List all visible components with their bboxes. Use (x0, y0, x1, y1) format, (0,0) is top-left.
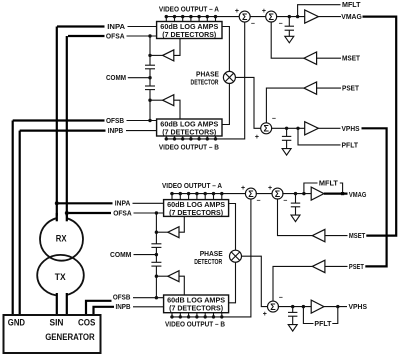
summer S6 (bottom phase) (268, 301, 279, 312)
op-amp A1 VMAG buffer (top) (305, 10, 319, 23)
junction cap node (bottom phase) (291, 305, 294, 308)
wire rail mid (bottom) (155, 247, 157, 262)
wire mixer2 out to sum6 (242, 256, 269, 306)
wire OFSA sense line from RX (66, 36, 68, 221)
op-amp A3 PSET (top) (304, 82, 317, 94)
offset buffer amp A1 (150, 39, 180, 61)
ground symbol G4 (288, 325, 297, 332)
svg-text:OFSB: OFSB (106, 116, 124, 125)
wire offset rail A1 vertical (149, 36, 151, 65)
op-amp A7 PSET (bottom) (312, 260, 325, 272)
wire INPB1 drop to generator GND (19, 131, 21, 315)
log amp box B1 (157, 119, 222, 136)
junction MFLT cap node (288, 15, 291, 18)
wire INPA sense line from RX (56, 27, 58, 220)
summer S1 (top) (239, 11, 250, 22)
svg-text:MFLT: MFLT (342, 0, 361, 9)
svg-text:MSET: MSET (342, 54, 361, 63)
op-amp A4 VPHS buffer (top) (305, 122, 319, 135)
svg-text:–: – (272, 116, 276, 123)
wire OFSB2 to box (133, 297, 164, 299)
wire amp to VPHS (318, 127, 340, 129)
mixer U2 phase detector (bottom) (230, 250, 242, 262)
svg-text:VIDEO OUTPUT – A: VIDEO OUTPUT – A (159, 4, 219, 13)
wire S5 to VMAG2 amp (282, 193, 311, 195)
svg-text:PSET: PSET (342, 84, 360, 93)
svg-text:Σ: Σ (242, 12, 248, 22)
capacitor C4 phase filter (282, 128, 291, 148)
wire VMAG top to MSET bottom (feedback) (363, 17, 397, 236)
junction OFSA2 rail (155, 211, 158, 214)
wire bus B1 (165, 21, 245, 138)
wire MFLT1 (298, 5, 341, 17)
label PHASE DETECTOR (top) (191, 69, 220, 86)
junction PFLT tap (296, 127, 299, 130)
wire S6 to VPHS2 amp (278, 306, 311, 308)
wire COMM2 (134, 254, 157, 256)
capacitor C1 (145, 65, 155, 69)
junction dots bus A1 (165, 15, 218, 18)
wire OFSA2 left (67, 212, 111, 214)
svg-text:VIDEO OUTPUT – B: VIDEO OUTPUT – B (159, 143, 219, 152)
coil RX (40, 213, 83, 261)
wire box A1 to mixer1 (222, 27, 229, 72)
junction MFLT2 tap (302, 192, 305, 195)
wire INPA2 to box (133, 202, 164, 204)
wire PSET2 amp to S6 minus (273, 266, 312, 301)
mixer U1 phase detector (top) (223, 71, 235, 83)
wire VPHS top to PSET bottom (feedback) (362, 128, 387, 266)
svg-text:VMAG: VMAG (341, 12, 362, 21)
svg-text:(7 DETECTORS): (7 DETECTORS) (162, 127, 216, 136)
wire TX to SIN a (56, 293, 58, 315)
svg-text:+: + (241, 185, 245, 192)
svg-text:COS: COS (78, 318, 95, 328)
wire INPA2 left (57, 202, 113, 204)
svg-text:(7 DETECTORS): (7 DETECTORS) (169, 304, 223, 313)
coil TX (37, 255, 84, 298)
wire rail lower (bottom) (155, 266, 157, 298)
wire MFLT2 loop right (340, 183, 343, 194)
junction buffer B1 out (148, 99, 151, 102)
svg-text:PFLT: PFLT (314, 319, 332, 328)
wire MSET amp to S2 minus (271, 21, 304, 58)
junction INPA2 tap (55, 201, 59, 205)
svg-text:Σ: Σ (275, 189, 281, 199)
ground symbol G3 (291, 215, 300, 222)
svg-text:+: + (262, 8, 266, 15)
offset buffer amp B1 (150, 95, 180, 119)
wire MSET label to amp (317, 57, 341, 59)
junction dots bus B2 (170, 315, 223, 318)
wire OFSA1 to box (127, 35, 157, 37)
junction OFSB1 (148, 119, 151, 122)
op-amp A8 VPHS buffer (bottom) (311, 300, 324, 313)
svg-text:PSET: PSET (349, 262, 364, 271)
wire box B1 to mixer1 (222, 83, 229, 124)
summer S3 (top phase) (261, 123, 272, 134)
summer S2 (top) (266, 11, 277, 22)
svg-text:(7 DETECTORS): (7 DETECTORS) (162, 30, 216, 39)
capacitor C6 (151, 262, 161, 266)
svg-text:Σ: Σ (263, 124, 269, 134)
op-amp A6 MSET (bottom) (312, 229, 325, 241)
capacitor C8 phase filter (288, 307, 297, 325)
wire PFLT2 loop (303, 307, 313, 324)
junction cap node (bottom mag) (294, 192, 297, 195)
ground symbol G1 (285, 36, 294, 43)
svg-text:RX: RX (56, 233, 67, 243)
svg-text:GENERATOR: GENERATOR (45, 332, 95, 342)
wire S3 to VPHS amp (271, 127, 305, 129)
junction dots bus B1 (165, 137, 218, 140)
junction PFLT2 tap (302, 305, 305, 308)
wire bus B2 (170, 198, 251, 317)
svg-text:GND: GND (8, 318, 25, 328)
wire MSET2 label to amp (325, 235, 348, 237)
wire PSET label to amp (317, 87, 341, 89)
wire rail mid (149, 69, 151, 86)
svg-text:VIDEO OUTPUT – A: VIDEO OUTPUT – A (162, 181, 222, 190)
wire S1 to S2 (250, 16, 267, 18)
junction PFLT cap node (285, 127, 288, 130)
log amp box A1 (157, 22, 222, 39)
svg-text:OFSA: OFSA (113, 208, 132, 217)
wire INPB1 to box (126, 130, 157, 132)
wire S2 to VMAG amp (276, 16, 305, 18)
wire PSET amp to S3 minus (266, 88, 304, 123)
op-amp A5 VMAG buffer (bottom) (311, 187, 324, 200)
svg-text:OFSB: OFSB (113, 293, 130, 302)
wire OFSB2 from COS (86, 301, 112, 315)
wire MFLT2 loop (304, 183, 318, 194)
wire PFLT1 (298, 128, 341, 145)
capacitor C2 (145, 86, 155, 90)
capacitor C3 video filter (285, 17, 294, 37)
junction COMM2 (155, 253, 158, 256)
capacitor C7 video filter (291, 194, 300, 216)
wire OFSB1 to box (127, 120, 157, 122)
junction buffer B2 out (155, 275, 158, 278)
svg-text:(7 DETECTORS): (7 DETECTORS) (169, 208, 223, 217)
detector stubs bus A2 (172, 194, 222, 200)
svg-text:COMM: COMM (106, 73, 126, 82)
svg-text:+: + (255, 134, 259, 141)
svg-text:MSET: MSET (349, 231, 366, 240)
wire rail lower (149, 90, 151, 121)
generator box (4, 315, 101, 353)
detector stubs bus B2 (172, 313, 222, 317)
wire OFSB1 left (13, 119, 105, 121)
wire amp to VMAG (318, 16, 341, 18)
svg-text:VPHS: VPHS (342, 124, 360, 133)
junction OFSA1 (148, 34, 151, 37)
svg-text:INPA: INPA (115, 199, 131, 208)
svg-text:–: – (279, 295, 283, 302)
svg-text:DETECTOR: DETECTOR (191, 77, 220, 86)
wire mixer1 out to sum3 (235, 77, 261, 128)
wire INPB2 from COS (94, 307, 115, 315)
offset buffer amp B2 (156, 271, 184, 295)
svg-text:VIDEO OUTPUT – B: VIDEO OUTPUT – B (165, 320, 225, 329)
wire TX to SIN b (66, 293, 68, 315)
svg-text:VPHS: VPHS (349, 302, 368, 311)
svg-text:Σ: Σ (248, 189, 254, 199)
svg-text:COMM: COMM (110, 250, 131, 259)
label PHASE DETECTOR (bottom) (194, 249, 223, 266)
wire MSET2 amp to S5 minus (278, 198, 313, 235)
wire OFSB1 drop to generator GND (12, 121, 14, 316)
log amp box A2 (164, 200, 229, 217)
junction OFSB2 rail (155, 296, 158, 299)
wire box A2 to mixer2 (229, 204, 236, 251)
junction buffer A1 out (148, 54, 151, 57)
wire INPB2 to box (133, 306, 164, 308)
summer S5 (bottom) (272, 188, 283, 199)
svg-text:OFSA: OFSA (106, 31, 125, 40)
svg-text:Σ: Σ (268, 12, 274, 22)
svg-text:–: – (251, 20, 255, 27)
summer S4 (bottom) (245, 188, 256, 199)
wire amp to VPHS2 (324, 306, 347, 308)
detector stubs bus B1 (166, 136, 215, 139)
wire amp to VMAG2 (324, 193, 348, 195)
wire COMM1 (128, 77, 150, 79)
junction buffer A2 out (155, 231, 158, 234)
wire box B2 to mixer2 (229, 262, 236, 303)
svg-text:PFLT: PFLT (342, 140, 359, 149)
op-amp A2 MSET (top) (304, 52, 317, 64)
svg-text:TX: TX (55, 272, 67, 282)
junction OFSA2 tap (65, 211, 69, 215)
junction dots bus A2 (170, 192, 223, 195)
wire INPA1 left (57, 25, 105, 27)
junction MFLT2 out (341, 192, 344, 195)
junction COMM1 (148, 76, 151, 79)
wire OFSA1 left (68, 35, 105, 37)
svg-text:+: + (268, 185, 272, 192)
svg-text:–: – (283, 198, 287, 205)
wire S4 to S5 (256, 193, 273, 195)
wire PSET2 label to amp (325, 265, 348, 267)
svg-text:INPB: INPB (116, 302, 131, 311)
capacitor C5 (151, 244, 161, 248)
svg-text:INPA: INPA (107, 22, 125, 31)
svg-text:SIN: SIN (50, 318, 64, 328)
detector stubs bus A1 (166, 17, 215, 22)
svg-text:–: – (257, 198, 261, 205)
junction PFLT2 out (336, 305, 339, 308)
ground symbol G2 (282, 149, 291, 156)
junction MFLT tap (296, 15, 299, 18)
wire bus A1 (165, 16, 240, 18)
svg-text:+: + (235, 8, 239, 15)
svg-text:VMAG: VMAG (349, 190, 367, 199)
wire INPA1 to box (128, 26, 157, 28)
svg-text:+: + (263, 311, 267, 318)
svg-text:DETECTOR: DETECTOR (194, 257, 223, 266)
wire bus A2 (170, 193, 246, 195)
svg-text:INPB: INPB (108, 126, 123, 135)
offset buffer amp A2 (156, 216, 184, 237)
svg-text:–: – (279, 20, 283, 27)
wire OFSA2 to box (134, 212, 164, 214)
log amp box B2 (164, 295, 229, 313)
wire offset rail A2 vertical (155, 213, 157, 244)
wire INPB1 left (20, 130, 106, 132)
svg-text:Σ: Σ (270, 302, 276, 312)
wire PFLT2 loop right (332, 307, 338, 324)
svg-text:MFLT: MFLT (319, 179, 339, 188)
